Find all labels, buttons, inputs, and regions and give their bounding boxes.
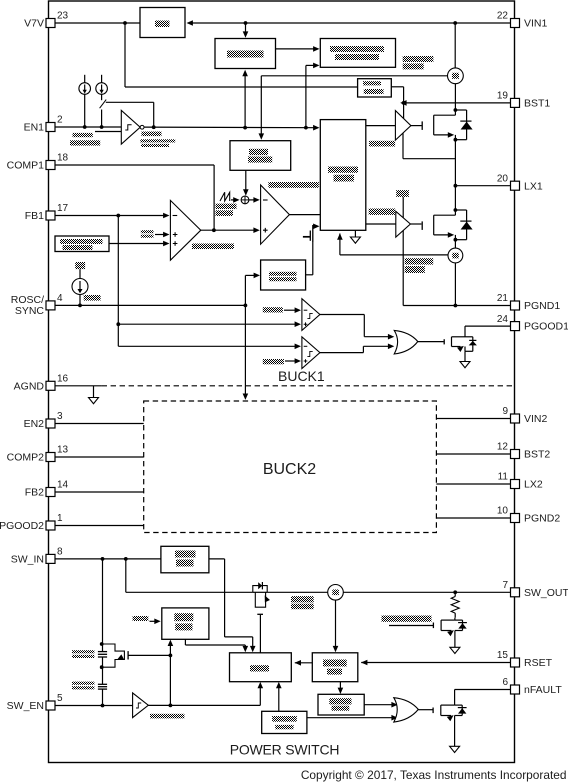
svg-text:PGND1: PGND1 [524,300,560,312]
wire logic to HS driver [366,125,396,127]
svg-text:VIN1: VIN1 [524,18,548,30]
wire gate control outputs [185,639,248,652]
buffer U16 LS gate driver [396,211,411,237]
block U17 charge pump [161,546,209,573]
pin 19 BST1 [497,91,551,110]
svg-text:20: 20 [497,173,509,184]
wire clamp gate [389,625,433,627]
wire BUCK2 left pin stub [55,456,144,458]
svg-text:SW_OUT: SW_OUT [524,587,568,599]
svg-text:nFAULT: nFAULT [524,684,562,696]
transistor Q4 low-side power fet with body diode [422,208,472,242]
transistor Q1 [303,224,320,275]
wire EN1 input [55,125,121,131]
svg-text:FB1: FB1 [25,210,44,222]
summing node [241,196,260,204]
label chain fet r1 [72,650,94,658]
svg-text:24: 24 [497,314,509,325]
svg-text:2: 2 [57,115,63,126]
label Irosc [84,295,101,301]
wire sense to HS fet [454,84,456,110]
wire timer to OR [364,702,398,708]
svg-text:POWER SWITCH: POWER SWITCH [230,741,340,757]
wire LS fet to sense [454,240,456,249]
wire FB1 [55,213,301,349]
current sense CS3 [328,585,344,601]
wire OR output [418,341,444,343]
wire valley sense to logic [337,233,448,255]
transistor Q8 output clamp [433,620,467,636]
wire BUCK2 left pin stub [55,491,144,493]
wire SW_OUT [268,590,511,594]
svg-text:1: 1 [57,513,63,524]
wire SW_IN [55,557,161,561]
ground AGND [89,398,99,404]
svg-text:4: 4 [57,293,63,304]
svg-text:BST2: BST2 [524,449,550,461]
pin 5 SW_EN [7,693,63,712]
label sw en threshold [150,714,184,719]
wire chain mid [102,658,104,685]
svg-text:11: 11 [498,472,509,483]
ground PGOOD fet [460,362,470,368]
block U2 bias [215,39,276,69]
pin 10 PGND2 [497,506,560,525]
svg-text:6: 6 [502,677,508,688]
pin 1 PGOOD2 [0,513,63,532]
svg-text:18: 18 [57,153,69,164]
pin 22 VIN1 [497,11,548,30]
label ls driver [369,209,396,215]
labels reference trims [403,56,434,69]
label slope comp [216,204,237,216]
svg-text:21: 21 [497,293,509,304]
wire ramp to summer [243,170,249,195]
pin 20 LX1 [497,173,543,192]
wire LS driver output [410,223,421,225]
wire logic to LS driver [366,223,396,225]
block U1 LDO [140,8,185,38]
wire SW_IN esd chain [102,559,104,651]
wire BUCK2 right pin stub [436,453,510,455]
wire clock to BUCK2 [243,305,249,400]
svg-text:15: 15 [497,650,509,661]
wire RSET [361,660,511,666]
wire error amp output node [201,227,260,233]
block U3 reference [320,39,395,68]
wire HS driver output [411,125,422,127]
wire enable to reference [304,63,320,130]
pin 6 nFAULT [502,677,562,696]
wire OR to nfault gate [418,709,433,711]
svg-text:8: 8 [57,547,63,558]
svg-text:14: 14 [57,480,69,491]
svg-text:PGOOD1: PGOOD1 [524,321,568,333]
wire chain to SW_EN [102,690,104,706]
wire HS driver return [403,133,455,159]
OR gate U24 fault [394,698,419,722]
wire BUCK2 right pin stub [436,517,510,519]
pin 11 LX2 [498,472,543,491]
wire LX to LS fet [454,186,456,210]
wire clamp source [454,631,456,648]
pin 16 AGND [14,374,69,393]
block U9 PWM logic [320,120,366,231]
wire bias to reference [276,46,320,52]
wire sense to ilim block [333,600,339,652]
svg-text:9: 9 [502,406,508,417]
svg-text:BUCK2: BUCK2 [263,461,316,478]
node LX1 [454,184,511,188]
label chain fet r2 [72,682,94,690]
OR gate U13 [394,330,418,354]
pin 9 VIN2 [502,406,547,425]
wire BST1 [400,100,510,106]
wire rail to LX1 [454,140,456,186]
label transconductance [192,244,234,250]
block U22 thermal shutdown [262,711,307,733]
wire clamp drain [454,618,456,620]
wire level shifter to driver supply [391,87,403,119]
labels pass fet [291,596,314,609]
svg-text:V7V: V7V [24,18,44,30]
block U8 ramp generator [230,141,291,171]
pin 12 BST2 [497,442,551,461]
svg-text:23: 23 [57,11,69,22]
ground clamp [450,647,460,653]
wire V7V rail [55,20,511,26]
wire SW_EN enable net [148,640,263,708]
svg-text:13: 13 [57,445,69,456]
svg-text:AGND: AGND [14,380,45,392]
wire COMP1 [55,165,216,232]
wire ROSC branch to block [244,273,261,308]
svg-text:12: 12 [497,442,509,453]
current source I3 [72,262,88,307]
wire nFAULT [455,690,511,706]
svg-text:FB2: FB2 [25,487,44,499]
svg-text:SYNC: SYNC [15,305,45,317]
block U21 fault timer [318,694,364,715]
ground logic [350,230,360,243]
wire AGND [55,386,102,398]
label pwm logic [268,182,318,188]
slope comp ramp glyph [220,192,240,202]
block U18 gate control [162,608,209,639]
label UV threshold [263,358,301,364]
wire BUCK2 left pin stub [55,423,144,425]
svg-text:COMP2: COMP2 [7,452,45,464]
label enable net [140,132,175,148]
pin 13 COMP2 [7,445,69,464]
block U6 soft start [55,236,170,252]
wire ilim sense feed [259,76,448,140]
svg-text:PGOOD2: PGOOD2 [0,520,44,532]
current sense CS1 [448,68,464,84]
wire enable up to bias [242,70,248,130]
svg-text:VIN2: VIN2 [524,413,548,425]
svg-text:EN2: EN2 [24,418,45,430]
transistor Q3 high-side power fet with body diode [422,108,472,142]
wire nfault source [454,716,456,747]
pin 18 COMP1 [7,153,69,172]
dashed BUCK1 separator [102,385,515,387]
transistor Q5 chain fet [98,642,170,669]
svg-text:COMP1: COMP1 [7,160,45,172]
wire VIN1 to current sense [454,23,456,68]
current source I1 [79,75,91,127]
op-amp U5 error amplifier [170,200,200,260]
label OV threshold [263,307,301,313]
label Vref [141,230,170,238]
svg-text:Copyright © 2017, Texas Instru: Copyright © 2017, Texas Instruments Inco… [301,768,567,782]
svg-text:SW_EN: SW_EN [7,700,44,712]
wire thermal to OR [307,715,398,721]
pin 7 SW_OUT [502,580,568,599]
transistor Q7 pass fet [252,582,270,653]
svg-text:LX1: LX1 [524,180,543,192]
wire thermal to control [276,682,282,711]
wire BUCK2 right pin stub [436,483,510,485]
svg-text:3: 3 [57,411,63,422]
pin 4 ROSC//SYNC [11,293,63,317]
pin 15 RSET [497,650,553,669]
pin 3 EN2 [24,411,63,430]
wire BUCK2 right pin stub [436,418,510,420]
schmitt buffer U23 SW_EN [133,693,149,718]
block BUCK2 dashed [144,401,437,533]
svg-text:5: 5 [57,693,63,704]
block U20 ilim sense [312,653,358,682]
ground nfault [450,746,460,752]
wire LS driver return [402,231,404,306]
resistor R1 [451,592,459,617]
svg-text:19: 19 [497,91,509,102]
wire PWM output [289,214,320,216]
svg-text:10: 10 [497,506,509,517]
wire PG comparator outputs [320,315,394,353]
transistor Q9 nFAULT open drain [433,705,467,721]
wire SW_IN to pass fet [126,559,253,592]
wire ilim to control [295,660,313,666]
svg-text:16: 16 [57,374,69,385]
wire VIN1 into bias [243,23,249,38]
comparator U12 PG low [302,337,320,369]
buffer U15 HS gate driver [395,111,411,141]
pin 8 SW_IN [11,547,63,566]
svg-text:EN1: EN1 [24,122,45,134]
label driver name [369,141,395,147]
block U19 current limit control [230,653,292,682]
IC boundary box [49,1,515,763]
label clamp gate [382,616,432,622]
svg-text:PGND2: PGND2 [524,513,560,525]
wire charge pump to control [209,559,256,652]
node PGND1 [403,304,510,308]
pin 2 EN1 [24,115,63,134]
transistor Q2 PGOOD1 open drain [444,326,477,361]
svg-text:22: 22 [497,11,509,22]
label LS driver supply [396,190,409,218]
svg-text:BUCK1: BUCK1 [278,368,325,384]
label EN threshold [70,133,100,146]
labels sense values [405,258,434,273]
svg-text:17: 17 [57,203,69,214]
pin 21 PGND1 [497,293,560,312]
block U10 frequency set [261,260,306,290]
op-amp U7 PWM comparator [261,185,290,244]
pin 24 PGOOD1 [497,314,568,333]
svg-text:BST1: BST1 [524,98,550,110]
pin 14 FB2 [25,480,69,499]
current sense CS2 [448,248,463,263]
comparator U11 PG high [302,299,320,331]
wire BUCK2 left pin stub [55,525,144,527]
svg-text:RSET: RSET [524,657,553,669]
svg-text:LX2: LX2 [524,479,543,491]
label mode input [133,616,161,624]
wire PGOOD1 [465,325,511,327]
wire SW_EN [55,704,133,708]
schmitt buffer U4 EN1 [121,110,144,144]
svg-text:7: 7 [502,580,508,591]
block U14 level shifter [358,79,392,97]
svg-text:SW_IN: SW_IN [11,554,44,566]
wire V7V branch to level shifter [125,23,358,87]
wire ilim to timer [338,682,344,694]
pin 17 FB1 [25,203,69,222]
wire enable bus [144,125,320,131]
transistor Q6 chain fet [98,684,107,689]
wire ROSC input [55,304,245,306]
pin 23 V7V [24,11,68,30]
wire sense to PGND [454,263,456,306]
current source I2 and switch S1 [96,75,154,127]
